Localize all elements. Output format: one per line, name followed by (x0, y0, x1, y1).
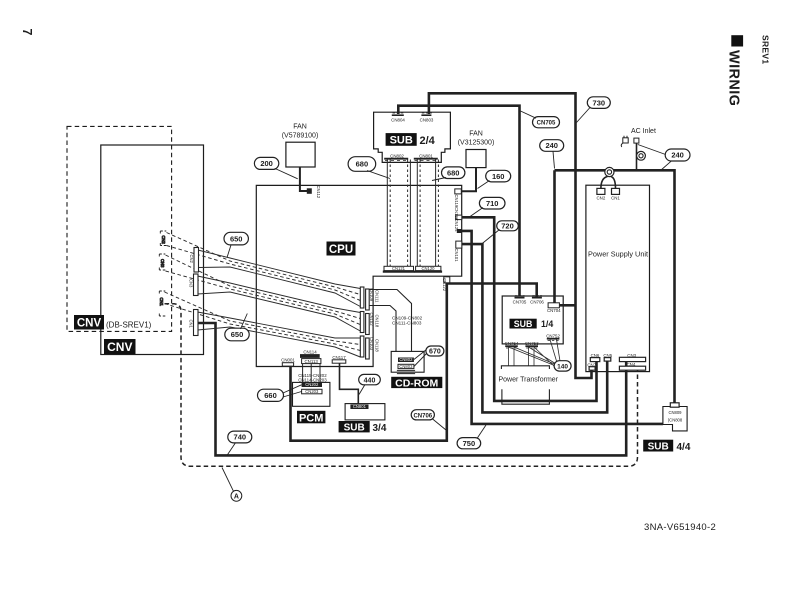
ref 440 (359, 374, 381, 394)
svg-text:3/4: 3/4 (373, 423, 387, 434)
connector CN801 (414, 154, 438, 161)
svg-text:CN121: CN121 (392, 266, 406, 271)
svg-text:730: 730 (593, 98, 606, 107)
ref CN705 (521, 111, 560, 128)
connector CN122 (442, 277, 450, 292)
svg-text:440: 440 (364, 377, 376, 384)
svg-text:(DB-SREV1): (DB-SREV1) (106, 321, 152, 330)
svg-text:CD-ROM: CD-ROM (395, 377, 438, 389)
connector CN203 (302, 389, 322, 394)
connector CN118 (366, 314, 380, 335)
label CNV (104, 339, 136, 354)
wire FAN V5789100 drop (300, 167, 309, 191)
wire CN124 to SUB4/4 CN808 (462, 231, 663, 424)
svg-text:CN705: CN705 (537, 121, 556, 127)
svg-text:CN114: CN114 (303, 350, 317, 355)
wire AC inlet drop (636, 144, 638, 171)
wire CN704 tee stub (560, 304, 576, 307)
label PCM (297, 411, 325, 425)
wire CN804 to CN705 (SUB1/4) (398, 106, 519, 297)
connector CN109 (360, 287, 374, 308)
connector CN116 (366, 338, 380, 359)
svg-text:CN101: CN101 (454, 249, 459, 263)
connector CN202 (302, 382, 322, 387)
svg-text:SUB: SUB (390, 135, 413, 147)
svg-text:670: 670 (429, 349, 441, 356)
transformer X wires to 140 (509, 340, 561, 367)
connector CN3 dashed (159, 254, 165, 270)
CD-ROM board (391, 351, 424, 372)
connector CN704 (547, 303, 561, 313)
svg-text:CN203: CN203 (305, 389, 319, 394)
connector circle on AC drop (637, 151, 646, 160)
label CD-ROM (391, 377, 442, 390)
svg-text:660: 660 (264, 391, 277, 400)
svg-text:CNV: CNV (77, 318, 102, 330)
svg-text:CN111: CN111 (375, 290, 380, 303)
SUB 4/4 connector board (663, 407, 687, 431)
connector CN801 SUB3/4 (350, 404, 368, 409)
connector CN803 CD-ROM (398, 364, 414, 369)
power transformer bracket top (501, 366, 549, 369)
label CPU (327, 242, 356, 257)
svg-text:CN753: CN753 (525, 341, 539, 346)
svg-text:680: 680 (356, 160, 369, 169)
svg-text:240: 240 (671, 151, 684, 160)
ref 720 (481, 221, 518, 245)
SUB 2/4 board (374, 112, 451, 162)
svg-text:CN801: CN801 (353, 404, 367, 409)
svg-text:CN111-CN803: CN111-CN803 (392, 321, 422, 326)
ref 200 (254, 157, 297, 178)
svg-text:CN120: CN120 (421, 266, 435, 271)
svg-text:WIRNIG: WIRNIG (726, 50, 742, 106)
label SUB 4/4 (643, 440, 691, 453)
wire CN803 to CN7 via CN704 tee (730) (429, 93, 592, 378)
svg-text:720: 720 (501, 222, 514, 231)
connector CN120 (414, 266, 442, 272)
svg-text:CN118: CN118 (375, 339, 380, 352)
svg-text:CN803: CN803 (420, 118, 434, 123)
ref 710 (469, 197, 505, 217)
ref 650 b (225, 314, 249, 341)
PCM board (293, 382, 330, 406)
svg-text:1/4: 1/4 (541, 319, 553, 329)
connector CN7 PSU (587, 362, 596, 370)
wire bus CN109/CN111 to CD-ROM (369, 290, 411, 353)
ref 670 (414, 346, 444, 367)
connector CN112 (307, 186, 321, 199)
connector CN121 (383, 266, 415, 272)
svg-text:CN2: CN2 (597, 196, 606, 201)
connector CN101 (454, 241, 462, 262)
connector CN115 (454, 207, 462, 220)
svg-text:CN117: CN117 (332, 355, 346, 360)
svg-text:CN706: CN706 (413, 413, 432, 419)
svg-text:CN122: CN122 (442, 278, 447, 292)
connector CN117 (332, 355, 346, 363)
svg-text:CN3: CN3 (189, 279, 194, 288)
svg-text:3NA-V651940-2: 3NA-V651940-2 (644, 522, 716, 533)
svg-text:CN2: CN2 (161, 236, 166, 245)
dashed boundary A (to CN4) (165, 304, 638, 467)
connector CN2 bar on CNV (189, 248, 199, 273)
wire bundle CN2 dashed (167, 233, 361, 295)
ref 240 a (540, 140, 564, 169)
svg-text:CN1: CN1 (611, 196, 620, 201)
svg-text:750: 750 (463, 439, 476, 448)
svg-text:CN802: CN802 (390, 154, 404, 159)
svg-text:CN1: CN1 (159, 298, 164, 307)
wire CN113 to PCM (303, 364, 320, 383)
svg-text:CN103: CN103 (369, 337, 374, 351)
svg-text:SUB: SUB (648, 442, 669, 453)
wire CN5 stub (606, 361, 608, 364)
wire bundle CN1 dashed (165, 292, 361, 345)
svg-text:FAN: FAN (469, 131, 483, 138)
connector CN114 (300, 350, 320, 358)
FAN (V5789100) box (286, 142, 315, 167)
svg-text:FAN: FAN (293, 124, 307, 131)
svg-text:(CN808: (CN808 (668, 418, 683, 423)
connector CN3 bar on CNV (189, 274, 199, 296)
CNV dashed outline (DB-SREV1) (67, 126, 172, 331)
wire bundle CN2 solid (198, 250, 360, 289)
svg-text:CN803: CN803 (399, 364, 413, 369)
AC inlet plug icon (621, 136, 639, 147)
svg-text:710: 710 (486, 199, 499, 208)
svg-text:740: 740 (234, 433, 247, 442)
svg-text:680: 680 (447, 168, 460, 177)
FAN (V3125300) box (466, 150, 486, 168)
connector CN752 (546, 333, 560, 340)
connector CN001 (281, 358, 295, 366)
power transformer bracket bottom (502, 389, 550, 404)
ref 240 b (638, 145, 690, 170)
ref 750 (457, 425, 486, 449)
connector CN804 (391, 113, 405, 123)
SUB 1/4 board (502, 296, 563, 344)
label SUB 2/4 (386, 133, 436, 147)
connector CN802 CD-ROM (398, 357, 414, 362)
svg-text:CN706: CN706 (530, 300, 544, 305)
CPU board (256, 185, 461, 366)
svg-text:CN102: CN102 (369, 313, 374, 327)
svg-text:650: 650 (230, 234, 243, 243)
connector CN111 (366, 289, 380, 310)
svg-text:CN202: CN202 (305, 382, 319, 387)
wire CN1 to CN3 (740) (198, 323, 626, 455)
svg-text:CN804: CN804 (391, 118, 405, 123)
connector CN5 PSU (603, 353, 612, 361)
svg-text:CN1: CN1 (189, 320, 194, 329)
connector pins CD-ROM (397, 370, 415, 373)
svg-text:CN802: CN802 (399, 357, 413, 362)
wire CN122 / CN001 to CN706 (750) (291, 284, 537, 441)
connector CN108 (360, 312, 374, 333)
label SUB 3/4 (339, 421, 387, 434)
svg-text:CN2: CN2 (189, 255, 194, 264)
svg-text:PCM: PCM (299, 412, 323, 424)
connector CN1 dashed (159, 291, 165, 316)
connector CN705 SUB1/4 (513, 296, 527, 305)
wire CN117 to SUB3/4 CN801 (440) (340, 364, 359, 404)
ref 730 (577, 97, 611, 123)
wire FAN V3125300 to CN119 (160) (462, 168, 476, 192)
svg-text:Power Supply Unit: Power Supply Unit (588, 250, 648, 259)
connector CN124 (454, 219, 462, 234)
connector CN119 (454, 189, 461, 208)
svg-text:CN112: CN112 (316, 186, 321, 199)
svg-text:CN801: CN801 (419, 154, 433, 159)
svg-text:200: 200 (260, 159, 273, 168)
ref 650 a (224, 232, 248, 257)
wire bundle CN1 solid (198, 312, 361, 338)
header bullet square (731, 35, 743, 46)
svg-text:CN124: CN124 (454, 219, 459, 233)
svg-text:CN754: CN754 (505, 341, 519, 346)
svg-text:Power Transformer: Power Transformer (499, 377, 559, 384)
connector CN1 bar on CNV (189, 310, 199, 336)
svg-text:CN113: CN113 (305, 359, 319, 364)
connector CN2 dashed (160, 231, 166, 246)
connector CN802 (384, 154, 408, 161)
svg-text:A: A (234, 494, 239, 501)
svg-text:7: 7 (20, 29, 34, 36)
wire mains branch to CN704 (553, 170, 556, 302)
ref CN706 (411, 410, 446, 430)
wire bundle CN3 solid (198, 276, 361, 313)
connector CN113 (302, 359, 321, 364)
svg-text:CN109: CN109 (369, 288, 374, 302)
connector CN754 (505, 341, 519, 348)
connector CN2 PSU (597, 188, 606, 200)
connector CN706 SUB1/4 (530, 296, 544, 305)
svg-text:240: 240 (545, 141, 558, 150)
ref 740 (227, 431, 252, 455)
connector CN1 PSU (611, 188, 620, 200)
connector CN803 (420, 113, 434, 123)
svg-text:CN3: CN3 (160, 259, 165, 268)
wire CN115 to CN6 (710) (462, 217, 597, 401)
ref 160 (478, 170, 511, 188)
svg-text:CNV: CNV (107, 340, 132, 354)
connector CN809 SUB4/4 (668, 403, 683, 423)
connector CN6 PSU (590, 353, 600, 362)
label SUB 1/4 (510, 319, 554, 330)
svg-text:650: 650 (231, 330, 244, 339)
svg-text:SUB: SUB (514, 319, 533, 329)
node A (222, 468, 242, 502)
wire bundle CN802 to CN121 (387, 160, 410, 267)
svg-text:2/4: 2/4 (420, 135, 436, 147)
svg-text:(V5789100): (V5789100) (282, 133, 319, 140)
label CNV (DB-SREV1) (74, 315, 152, 330)
svg-text:CN705: CN705 (513, 300, 527, 305)
CNV board (101, 145, 204, 355)
wire CN122 stub to CPU (446, 277, 448, 284)
Power Supply Unit board (586, 185, 650, 371)
wire mains loop 240 top (555, 170, 675, 406)
wire bundle CN801 to CN120 (417, 160, 438, 267)
ref 680 b (432, 167, 465, 181)
connector CN3 PSU (619, 353, 645, 362)
connector CN103 (360, 336, 374, 357)
connector CN753 (525, 341, 539, 348)
svg-text:CN704: CN704 (547, 308, 561, 313)
svg-text:CN809: CN809 (668, 410, 682, 415)
wire bundle CN3 dashed (166, 255, 361, 319)
connector circle on mains (605, 167, 614, 176)
SUB 3/4 board (345, 404, 385, 420)
svg-text:140: 140 (557, 364, 568, 371)
ref 660 (258, 385, 302, 402)
svg-text:(V3125300): (V3125300) (458, 140, 495, 147)
wire CN101 to CN5 (720) (462, 244, 608, 412)
svg-text:CN119: CN119 (454, 195, 459, 208)
connector CN4 PSU (619, 362, 645, 370)
ref 140 (554, 361, 571, 371)
ref 680 a (348, 157, 390, 179)
svg-text:CN752: CN752 (546, 333, 560, 338)
svg-text:160: 160 (492, 172, 505, 181)
svg-text:SUB: SUB (344, 423, 365, 434)
svg-text:4/4: 4/4 (677, 442, 691, 453)
wire CN2/CN1 arcs to inlet connector (601, 177, 616, 189)
wire CN6 stub (596, 362, 598, 365)
svg-text:CPU: CPU (329, 244, 353, 256)
svg-text:SREV1: SREV1 (761, 35, 771, 64)
svg-text:CN118: CN118 (375, 315, 380, 328)
svg-text:AC Inlet: AC Inlet (631, 128, 656, 135)
svg-text:CN001: CN001 (281, 358, 295, 363)
